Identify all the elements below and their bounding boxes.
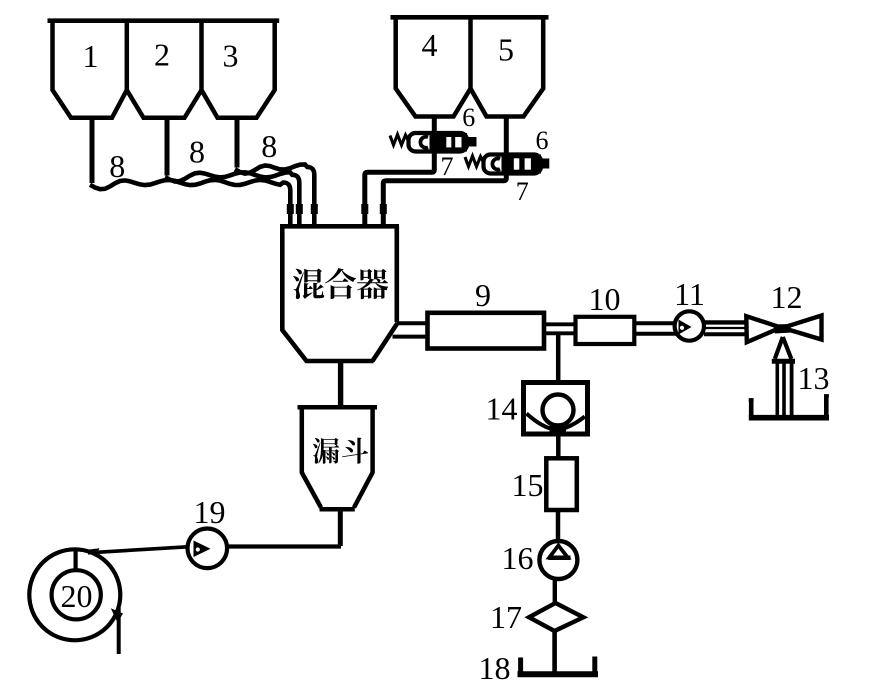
- device 10: [576, 317, 635, 344]
- feeder 6/7 under hopper 4: body: [409, 133, 468, 152]
- rotary valve 14 rotor: [543, 395, 574, 426]
- take-off arrowhead: [111, 608, 123, 622]
- reel 20 slit: [73, 550, 77, 571]
- svg-text:13: 13: [798, 360, 830, 396]
- funnel text 斗: [342, 438, 368, 464]
- feeder A slot 1: [446, 137, 451, 147]
- mixer text 器: [357, 269, 388, 299]
- hopper 4: [396, 16, 471, 117]
- rotary valve 14 left wing: [527, 414, 557, 430]
- svg-text:2: 2: [154, 37, 170, 73]
- hose 8a from hopper 1: [90, 180, 290, 224]
- feeder 6/7 under hopper 5: spring: [465, 156, 484, 167]
- feeder A rotor arc: [420, 137, 428, 148]
- discharge pipe 13: [775, 362, 779, 415]
- pump 19 rotor: [194, 541, 211, 558]
- hopper 3 outlet pipe: [235, 118, 240, 168]
- hopper bank 4-5 top line: [391, 15, 549, 20]
- pipe 10 to 11 bottom: [634, 332, 676, 336]
- svg-text:12: 12: [771, 279, 803, 315]
- svg-text:16: 16: [502, 540, 534, 576]
- pipe 16 to 17: [553, 578, 557, 605]
- svg-text:19: 19: [194, 494, 226, 530]
- pump 19: [188, 529, 228, 569]
- svg-text:14: 14: [486, 391, 518, 427]
- feeder 6/7 under hopper 5: body: [484, 155, 542, 174]
- blower 11 rotor: [679, 320, 692, 335]
- hopper 1 outlet pipe: [90, 118, 95, 183]
- pipe 11 to 12: [704, 320, 746, 324]
- feeder B rotor arc: [492, 158, 500, 169]
- svg-text:7: 7: [516, 177, 529, 206]
- feeder joints: [361, 204, 368, 214]
- mixer outlet pipe to 9 bottom line: [393, 335, 429, 339]
- device 15: [546, 458, 577, 510]
- feeder B dark core: [502, 155, 542, 174]
- feeder B slot 1: [514, 158, 520, 169]
- feeder A dark core: [430, 133, 468, 152]
- hose 8c from hopper 3: [235, 165, 314, 225]
- drop pipe to 14: [556, 335, 561, 383]
- funnel text 漏: [313, 438, 339, 464]
- reel take-off line: [117, 608, 121, 654]
- hopper 5 outlet pipe: [383, 117, 506, 225]
- svg-text:8: 8: [261, 128, 277, 164]
- conveyor 9: [428, 313, 545, 349]
- mixer outlet pipe to 9 top line: [397, 321, 428, 325]
- svg-text:4: 4: [422, 27, 438, 63]
- line pump 19 to reel 20: [88, 547, 188, 553]
- feeder A shaft nub: [467, 137, 477, 147]
- pump 16 triangle: [549, 546, 567, 558]
- hose joints: [287, 204, 294, 214]
- hopper 3: [202, 19, 275, 118]
- reel 20 inner: [52, 570, 101, 619]
- valve 12 left wedge: [746, 316, 781, 342]
- filter 17: [529, 603, 583, 631]
- svg-text:1: 1: [83, 38, 99, 74]
- svg-text:20: 20: [61, 578, 93, 614]
- pipe 14 to 15: [556, 434, 561, 459]
- feeder 6/7 under hopper 4: spring: [390, 135, 409, 146]
- svg-text:3: 3: [223, 38, 239, 74]
- rotary valve 14 right wing: [559, 417, 585, 430]
- funnel outlet pipe: [338, 509, 343, 546]
- reel 20 outer: [29, 549, 120, 640]
- line funnel to pump 19: [227, 544, 341, 548]
- receiving bin under 13: [749, 415, 829, 421]
- hopper 1: [53, 19, 127, 118]
- svg-text:15: 15: [512, 467, 544, 503]
- hopper 2: [127, 19, 202, 118]
- rotary valve 14 outlet blob: [550, 425, 567, 435]
- svg-text:7: 7: [441, 152, 454, 181]
- svg-text:5: 5: [498, 32, 514, 68]
- valve 12 right wedge: [783, 316, 822, 340]
- hopper bank top line: [48, 18, 280, 23]
- svg-text:17: 17: [490, 599, 522, 635]
- pump 16: [539, 541, 577, 579]
- blower 11: [675, 311, 704, 340]
- feeder A slot 2: [455, 137, 461, 147]
- svg-text:8: 8: [109, 148, 125, 184]
- svg-text:8: 8: [189, 134, 205, 170]
- svg-text:11: 11: [674, 276, 705, 312]
- svg-text:10: 10: [589, 281, 621, 317]
- mixer text 混: [293, 269, 324, 300]
- svg-text:9: 9: [475, 277, 491, 313]
- hose 8b from hopper 2: [165, 172, 299, 224]
- feeder B slot 2: [525, 158, 531, 169]
- hopper 2 outlet pipe: [165, 118, 170, 176]
- svg-text:6: 6: [536, 126, 549, 155]
- feeder B shaft nub: [541, 159, 550, 169]
- mixer bottom outlet pipe: [338, 361, 343, 408]
- pipe 15 to 16: [556, 510, 561, 543]
- pipe 17 to 18: [552, 630, 557, 673]
- mixer body: [282, 226, 373, 361]
- funnel body: [298, 405, 378, 509]
- hopper 5: [471, 16, 544, 117]
- pipe 9 to 10 bottom: [544, 331, 576, 335]
- pipe 10 to 11 top: [634, 321, 676, 325]
- hopper 4 outlet pipe: [365, 117, 435, 225]
- tank 18: [518, 671, 599, 677]
- valve 12 hub: [773, 324, 792, 334]
- svg-text:18: 18: [479, 650, 511, 686]
- mixer text 合: [325, 268, 356, 299]
- svg-text:6: 6: [462, 103, 475, 132]
- nozzle below valve: [775, 337, 792, 359]
- arrowhead at reel: [87, 548, 100, 557]
- pipe 9 to 10 top: [544, 322, 576, 326]
- rotary valve 14 box: [524, 383, 588, 435]
